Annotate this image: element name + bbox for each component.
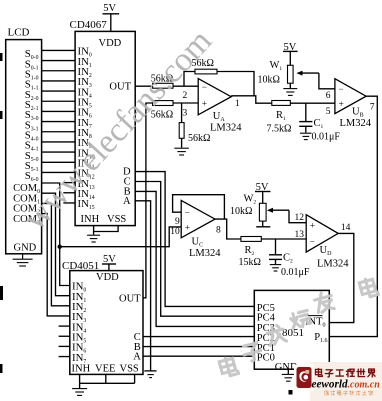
CD4067 pin OUT [109,82,131,93]
stub wire CD4051 IN5 [59,335,70,337]
wire S2-0 to IN4 [42,90,76,92]
CD4051 pins INH VEE VSS [72,364,139,375]
svg-text:+: + [339,100,344,110]
LCD pin S6-0 [25,170,39,183]
8051 pin PC1 [257,343,275,354]
microcontroller 8051 [254,290,329,369]
ground under A wire [147,375,153,378]
svg-text:2: 2 [183,91,188,101]
svg-text:13: 13 [295,230,305,240]
svg-text:CD4051: CD4051 [62,260,99,272]
5V supply for CD4067 [103,3,120,31]
wire UC output pin8 to R2 [215,219,241,239]
svg-text:VDD: VDD [96,272,119,283]
LCD pin S3-1 [25,119,39,132]
svg-text:LM324: LM324 [340,118,372,129]
junction node COM0/UC+ [58,245,62,249]
LCD pin S2-0 [25,89,39,102]
8051 pin INT0 [305,316,326,329]
svg-text:10kΩ: 10kΩ [258,74,280,85]
svg-text:VDD: VDD [99,38,122,49]
wire S3-1 to IN7 [42,121,76,123]
CD4067 pin C [124,177,131,188]
wire CD4067 B to 8051 PC3 [135,191,254,326]
svg-text:10: 10 [170,227,180,237]
LCD pin S0-0 [25,48,39,61]
ground under W1 [283,83,297,95]
W2 bottom bar [256,221,270,227]
svg-text:0.01μF: 0.01μF [281,267,310,278]
svg-text:OUT: OUT [119,293,141,304]
CD4067 multiplexer U-4067 [70,19,136,225]
svg-text:UC: UC [192,236,204,248]
svg-text:eeworld.com.cn: eeworld.com.cn [312,379,381,391]
wire to UA pin3 [173,102,198,104]
LCD pin COM0 [13,183,40,195]
8051 pin PC0 [257,353,275,364]
LCD pin S3-0 [25,109,39,122]
potentiometer W1 10k [258,60,294,85]
svg-text:15kΩ: 15kΩ [239,257,261,268]
LCD pin S2-1 [25,99,39,112]
wire S3-0 to IN6 [42,110,76,112]
CD4051 bottom ground wires [80,374,135,388]
CD4067 pin IN11 [78,157,95,170]
wire CD4051 OUT up to 56k input resistor [143,103,153,298]
CD4067 pins INH VSS [81,214,127,225]
8051 pin PC5 [257,303,275,314]
svg-text:VSS: VSS [120,364,139,375]
svg-text:LM324: LM324 [317,258,349,269]
wire S1-1 to IN3 [42,80,76,82]
wire S4-0 to IN8 [42,131,76,133]
CD4067 pin IN3 [78,76,92,89]
svg-text:+: + [185,224,190,234]
svg-text:C2: C2 [283,252,293,264]
stub wire IN15 [63,202,75,204]
CD4051 pin A [133,351,141,362]
CD4067 pin IN9 [78,137,92,150]
CD4067 pin B [124,186,131,197]
svg-text:W1: W1 [270,60,283,72]
8051 pin PC3 [257,323,275,334]
stub wire IN13 [63,182,75,184]
LCD pin S4-1 [25,140,39,153]
LCD pin COM2 [13,204,40,216]
CD4051 pin IN6 [72,342,86,355]
wire COM0 to CD4051 IN0 [42,183,70,286]
CD4051 pin IN2 [72,301,86,314]
svg-text:56kΩ: 56kΩ [188,133,210,144]
8051 GND label [275,362,298,373]
LCD pin S1-0 [25,69,39,82]
svg-text:3: 3 [183,109,188,119]
svg-text:UA: UA [213,111,226,123]
svg-text:VSS: VSS [107,214,126,225]
wire UD output pin14 down to INT0 [329,233,354,322]
wire S1-0 to IN2 [42,70,76,72]
CD4051 multiplexer U-4051 [62,260,143,374]
wire S2-1 to IN5 [42,100,76,102]
edge marks [0,53,293,395]
svg-text:R1: R1 [276,110,286,122]
UC feedback wire pin9 [173,195,225,219]
CD4051 pin IN7 [72,352,86,365]
CD4067 pin IN8 [78,127,92,140]
svg-text:14: 14 [341,223,351,233]
wire COM1 to CD4051 IN1 [42,193,70,295]
svg-text:0.01μF: 0.01μF [312,131,341,142]
CD4067 pin IN10 [78,147,95,160]
svg-text:7: 7 [370,103,375,113]
W1 wiper arrow to UB pin6 [296,71,335,89]
svg-text:LM324: LM324 [210,122,242,133]
LCD pin S4-0 [25,130,39,143]
LCD ground symbol [13,254,33,266]
CD4067 pin IN6 [78,107,92,120]
op-amp UD LM324 [295,213,351,270]
CD4051 pin IN0 [72,281,86,294]
wire R1 to UB pin5 [290,102,335,104]
svg-text:−: − [339,84,344,94]
svg-text:A: A [123,196,131,207]
svg-text:5V: 5V [103,254,116,265]
CD4051 pin IN1 [72,291,86,304]
svg-text:LCD: LCD [8,27,30,39]
CD4051 pin IN3 [72,311,86,324]
svg-text:+: + [202,100,207,110]
LCD block U-LCD [6,27,42,254]
svg-text:7.5kΩ: 7.5kΩ [267,123,292,134]
resistor R1 7.5k [267,101,292,135]
wire UA output [231,96,272,103]
feedback resistor 56k UA [184,58,254,96]
svg-text:W2: W2 [244,194,257,206]
op-amp UC LM324 [170,200,221,259]
capacitor C1 0.01uF [299,103,340,142]
wire S0-0 to IN0 [42,49,76,51]
CD4067 pin IN13 [78,178,95,191]
wire CD4067 OUT to R-56k [135,85,152,87]
LCD pin S0-1 [25,58,39,71]
svg-text:VEE: VEE [95,364,115,375]
wire S4-1 to IN9 [42,141,76,143]
wire COM2 to CD4051 IN2 [42,203,70,305]
svg-text:INH: INH [72,364,91,375]
ground under 8051 [282,369,295,381]
svg-text:9: 9 [175,217,180,227]
capacitor C2 0.01uF [269,239,310,278]
svg-text:A: A [133,351,141,362]
8051 pin P1.6 [314,332,327,344]
svg-text:R2: R2 [245,245,255,257]
wire CD4067 D to 8051 PC5 [135,172,254,307]
svg-text:PC0: PC0 [257,353,275,364]
CD4051 pin C [134,332,141,343]
svg-text:1: 1 [235,99,240,109]
svg-text:5V: 5V [103,3,116,14]
resistor R2 15k [239,237,262,268]
CD4051 pin B [134,342,141,353]
CD4067 pin A [123,196,131,207]
8051 pin PC2 [257,333,275,344]
svg-text:C1: C1 [314,118,324,130]
stub wire CD4051 IN7 [59,356,70,358]
stub wire CD4051 IN6 [59,345,70,347]
svg-text:10kΩ: 10kΩ [230,206,252,217]
CD4051 pin OUT [119,293,141,304]
5V supply for CD4051 [102,254,116,271]
svg-text:UD: UD [320,245,333,257]
wire CD4051 A to 8051 PC0 [143,355,254,357]
watermark www.elecfans.com [17,22,219,237]
CD4067 pin IN12 [78,168,95,181]
svg-text:CD4067: CD4067 [70,19,108,31]
ground under C1 [300,133,312,139]
LCD pin COM1 [13,193,40,205]
wire CD4067 A to ground [135,201,156,371]
CD4067 pin IN7 [78,117,92,130]
CD4051 pin IN5 [72,331,86,344]
W2 wiper arrow to UD pin12 [267,208,306,223]
wire COM0 junction to UC pin10 [60,227,182,247]
wire UB output pin7 down to P1.6 [329,96,377,336]
svg-text:6: 6 [326,91,331,101]
ground under CD4067 [87,235,100,242]
svg-text:8: 8 [216,226,221,236]
5V supply for W1 [283,42,298,66]
wire S6-0 to IN12 [42,171,76,173]
CD4067 pin IN1 [78,56,92,69]
wire S5-1 to IN11 [42,161,76,163]
svg-text:−: − [185,208,190,218]
svg-text:UB: UB [352,106,364,118]
CD4067 pin IN4 [78,86,92,99]
LCD pin COM3 [13,214,40,226]
svg-text:−: − [202,82,207,92]
wire R2 to UD pin13 [261,238,306,240]
CD4067 pin IN5 [78,96,92,109]
LCD GND label [14,243,37,254]
svg-text:−: − [310,237,315,247]
svg-text:+: + [310,221,315,231]
CD4067 pin IN14 [78,188,95,201]
ground under 56k [174,148,189,155]
wire CD4051 C to 8051 PC2 [143,336,254,338]
watermark dianzifashaoyou [219,277,379,377]
LCD pin S5-0 [25,150,39,163]
svg-text:12: 12 [295,213,305,223]
ground under CD4051 [72,389,87,396]
ground under C2 [270,265,282,271]
8051 pin PC4 [257,313,276,324]
eeworld logo [288,362,382,401]
wire CD4067 C to 8051 PC4 [135,182,254,317]
svg-text:INH: INH [81,214,100,225]
LCD pin S1-1 [25,79,39,92]
CD4067 pin IN15 [78,198,95,211]
svg-text:5: 5 [326,107,331,117]
resistor 56k UA pin3 to ground [179,103,210,148]
op-amp UB LM324 [326,79,375,129]
potentiometer W2 10k [230,194,266,222]
CD4067 INH/VSS ground wires [94,226,119,235]
LCD pin S5-1 [25,160,39,173]
wire S5-0 to IN10 [42,151,76,153]
wire CD4051 B to 8051 PC1 [143,346,254,348]
stub wire CD4051 IN4 [59,325,70,327]
resistor 56k input pin3 [151,101,173,121]
5V supply for W2 [255,182,271,203]
stub wire IN14 [63,192,75,194]
wire COM3 to CD4051 IN3 [42,214,70,316]
resistor 56k input pin2 [151,73,173,88]
CD4067 pin IN0 [78,46,92,59]
svg-text:GND: GND [14,243,37,254]
CD4067 pin D [123,167,131,178]
svg-text:LM324: LM324 [189,248,221,259]
wire to UA pin2 [173,85,198,87]
op-amp UA LM324 [183,79,243,134]
CD4051 pin IN4 [72,321,86,334]
wire S0-1 to IN1 [42,60,76,62]
CD4067 pin IN2 [78,66,92,79]
